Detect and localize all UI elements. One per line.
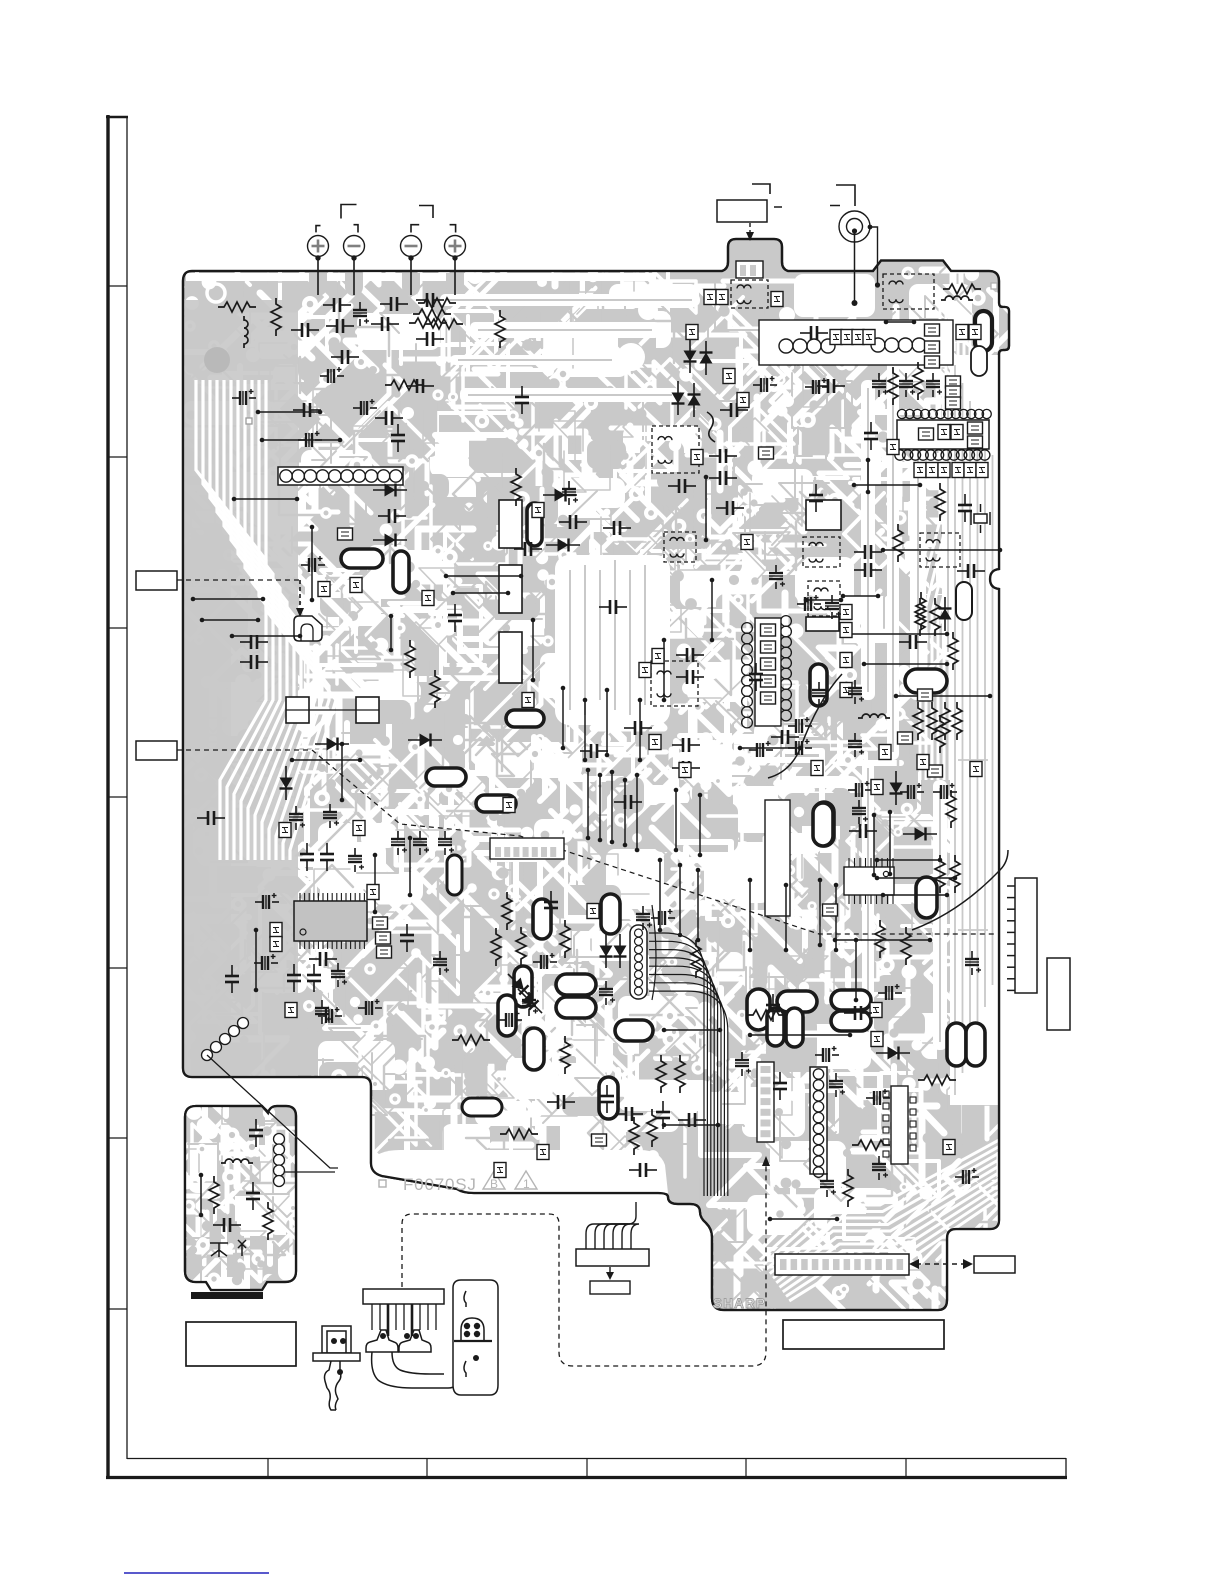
dashed harness routing region xyxy=(402,1166,766,1366)
multi-pin plug drawing xyxy=(363,1289,458,1388)
jumper xyxy=(649,735,661,750)
jumper xyxy=(686,325,698,340)
jumper xyxy=(761,641,776,653)
dashed arrow to connector xyxy=(762,1156,770,1166)
jumper xyxy=(871,780,883,795)
right margin white band xyxy=(950,355,998,1105)
electrolytic capacitor xyxy=(900,783,924,799)
wire link xyxy=(768,1217,840,1222)
resistor xyxy=(560,920,570,958)
wire link xyxy=(678,863,683,938)
electrolytic footprint xyxy=(615,1020,653,1041)
electrolytic capacitor xyxy=(815,1046,839,1062)
capacitor xyxy=(547,1095,575,1109)
wire link xyxy=(561,686,566,751)
diode xyxy=(903,828,937,841)
shield can (dashed) xyxy=(731,280,768,308)
inductor xyxy=(244,316,248,348)
revision triangle 1 xyxy=(515,1171,537,1189)
resistor xyxy=(916,592,926,630)
wire link xyxy=(704,475,709,543)
jumper xyxy=(532,503,544,518)
sub-board black bar xyxy=(191,1292,263,1299)
card-edge comb connector xyxy=(1007,878,1037,993)
jumper xyxy=(840,623,852,638)
wire link xyxy=(841,594,881,599)
jumper xyxy=(338,528,353,540)
QFP IC xyxy=(300,893,364,949)
capacitor xyxy=(800,326,828,340)
electrolytic capacitor xyxy=(599,981,615,1005)
jumper xyxy=(952,463,964,478)
electrolytic footprint xyxy=(533,899,551,939)
electrolytic capacitor xyxy=(438,831,454,855)
resistor xyxy=(913,362,923,400)
wire link xyxy=(389,614,394,653)
diode xyxy=(315,738,349,751)
capacitor xyxy=(599,600,627,614)
svg-text:F0070SJ: F0070SJ xyxy=(403,1175,477,1194)
capacitor xyxy=(899,635,927,649)
dashed double arrow xyxy=(916,1263,966,1265)
capacitor xyxy=(378,509,406,523)
electrolytic capacitor xyxy=(965,951,981,975)
jumper xyxy=(761,692,776,704)
diode xyxy=(890,771,903,805)
jumper xyxy=(871,1032,883,1047)
jumper xyxy=(723,369,735,384)
wire link xyxy=(230,634,303,639)
wire link xyxy=(872,813,877,878)
resistor xyxy=(943,284,981,294)
jumper xyxy=(761,624,776,636)
trace bundle upper-left xyxy=(196,380,266,860)
jumper xyxy=(943,1140,955,1155)
electrolytic capacitor xyxy=(636,906,652,930)
harness connector body xyxy=(576,1249,649,1266)
left edge copper pour xyxy=(183,300,298,1080)
electrolytic footprint xyxy=(810,664,827,706)
SOIC IC right xyxy=(849,858,893,904)
wire link xyxy=(605,688,610,758)
jumper xyxy=(925,324,940,336)
electrolytic capacitor xyxy=(331,963,347,987)
jumper xyxy=(976,463,988,478)
capacitor xyxy=(391,424,405,452)
jumper xyxy=(503,798,515,813)
white channel group top-center xyxy=(440,294,700,306)
main PCB board outline xyxy=(183,239,1009,1310)
jumper xyxy=(968,422,983,434)
pin header strip (white) with round pads xyxy=(278,467,403,485)
electrolytic capacitor xyxy=(358,999,382,1015)
svg-text:B: B xyxy=(490,1177,498,1191)
capacitor xyxy=(225,965,239,993)
capacitor xyxy=(291,323,319,337)
IC shield box top-right (white) with pads xyxy=(759,320,953,365)
resistor xyxy=(893,524,903,562)
jumper xyxy=(652,649,664,664)
resistor xyxy=(430,670,440,708)
white box mid-left with pads xyxy=(490,838,564,859)
wire link xyxy=(290,758,363,763)
jumper xyxy=(946,386,961,398)
resistor xyxy=(209,1176,219,1214)
capacitor xyxy=(676,670,704,684)
wire link xyxy=(881,893,950,898)
resistor xyxy=(948,632,958,670)
electrolytic capacitor xyxy=(788,717,812,733)
resistor xyxy=(502,892,512,930)
electrolytic capacitor xyxy=(926,373,942,397)
electrolytic capacitor xyxy=(753,376,777,392)
top reference box xyxy=(717,200,767,222)
electrolytic capacitor xyxy=(323,804,339,828)
resistor xyxy=(516,927,526,965)
capacitor xyxy=(249,1119,263,1147)
jumper xyxy=(840,653,852,668)
capacitor xyxy=(406,379,434,393)
resistor xyxy=(263,1202,273,1240)
white patch center xyxy=(555,555,670,725)
electrolytic footprint xyxy=(556,974,596,995)
registration square mid xyxy=(246,418,252,424)
electrolytic capacitor xyxy=(769,565,785,589)
electrolytic capacitor xyxy=(852,800,868,824)
electrolytic footprint xyxy=(767,1008,784,1046)
resistor xyxy=(935,855,945,893)
bracket mark xyxy=(752,184,770,194)
jumper xyxy=(367,885,379,900)
capacitor xyxy=(323,298,351,312)
jumper xyxy=(925,341,940,353)
electrolytic capacitor xyxy=(866,1089,890,1105)
wire link xyxy=(875,876,958,881)
diode xyxy=(684,339,697,373)
capacitor xyxy=(603,521,631,535)
electrolytic footprint xyxy=(747,989,770,1030)
jumper xyxy=(494,1163,506,1178)
electrolytic footprint xyxy=(426,768,466,786)
wire harness to connector xyxy=(586,1202,639,1250)
resistor xyxy=(875,920,885,958)
jumper xyxy=(639,663,651,678)
jumper xyxy=(968,436,983,448)
wire link xyxy=(833,938,933,943)
white silkscreen label area xyxy=(371,1150,668,1193)
wire link xyxy=(623,778,628,848)
capacitor xyxy=(849,824,877,838)
bracket mark xyxy=(411,225,419,233)
RCA jack symbol xyxy=(839,211,870,242)
electrolytic capacitor xyxy=(735,1052,751,1076)
wire link xyxy=(340,742,345,803)
jumper xyxy=(537,1145,549,1160)
bracket mark xyxy=(341,205,357,219)
resistor xyxy=(218,302,256,312)
pad chain main board xyxy=(202,1018,249,1061)
electrolytic capacitor xyxy=(289,806,305,830)
electrolytic capacitor xyxy=(899,373,915,397)
DIP IC top-right with pad rows xyxy=(895,409,992,460)
electrolytic capacitor xyxy=(848,781,872,797)
flying wire arc 2 xyxy=(912,850,1008,930)
vertical IC bottom with side pads xyxy=(891,1086,908,1164)
inductor xyxy=(858,714,890,718)
dashed leader from box 2 xyxy=(177,750,994,934)
jumper xyxy=(898,732,913,744)
electrolytic capacitor xyxy=(872,1156,888,1180)
resistor xyxy=(385,380,423,390)
electrolytic capacitor xyxy=(533,953,557,969)
crystal xyxy=(971,504,990,533)
wire link xyxy=(852,483,923,488)
jumper xyxy=(964,463,976,478)
electrolytic capacitor xyxy=(255,893,279,909)
wire link xyxy=(748,1033,853,1038)
electrolytic capacitor xyxy=(391,831,407,855)
capacitor xyxy=(331,350,359,364)
component outline xyxy=(499,632,522,683)
capacitor xyxy=(213,1218,241,1232)
electrolytic footprint xyxy=(476,795,516,812)
arrow below harness connector xyxy=(609,1267,611,1274)
capacitor xyxy=(864,422,878,450)
electrolytic capacitor xyxy=(254,954,278,970)
bracket mark xyxy=(316,226,321,233)
electrolytic capacitor xyxy=(825,595,841,619)
electrolytic capacitor xyxy=(812,682,828,706)
resistor xyxy=(946,790,956,828)
left reference box 1 xyxy=(136,571,177,590)
fan-out harness lines xyxy=(649,933,728,1196)
board connector terminal - xyxy=(401,236,422,296)
capacitor xyxy=(771,730,799,744)
electrolytic footprint xyxy=(966,1023,985,1066)
electrolytic capacitor xyxy=(878,984,902,1000)
board connector terminal + xyxy=(308,236,329,296)
capacitor xyxy=(448,604,462,632)
wire link xyxy=(662,638,667,703)
jumper xyxy=(741,535,753,550)
wire link xyxy=(698,793,703,858)
jumper xyxy=(270,923,282,938)
electrolytic footprint xyxy=(498,995,516,1036)
wire link xyxy=(866,458,871,495)
diode xyxy=(503,969,536,1002)
electrolytic footprint xyxy=(975,311,992,351)
wire link xyxy=(200,618,261,623)
RCA jack second lead xyxy=(870,227,878,285)
connector block xyxy=(1047,958,1070,1030)
capacitor xyxy=(817,379,845,393)
resistor xyxy=(935,715,945,753)
jumper xyxy=(970,762,982,777)
resistor xyxy=(935,483,945,521)
electrolytic footprint xyxy=(971,346,987,376)
component outline xyxy=(806,500,841,530)
jumper xyxy=(919,428,934,440)
resistor xyxy=(452,1035,490,1045)
electrolytic footprint xyxy=(506,710,544,727)
revision triangle B xyxy=(483,1171,505,1189)
blue footer underline xyxy=(124,1572,269,1574)
jumper xyxy=(811,761,823,776)
wire link xyxy=(888,810,893,877)
jumper xyxy=(759,447,774,459)
electrolytic capacitor xyxy=(498,1011,522,1027)
wire link xyxy=(232,497,300,502)
wire link xyxy=(583,698,588,763)
wire link xyxy=(884,320,917,325)
electrolytic capacitor xyxy=(320,367,344,383)
jumper xyxy=(587,904,599,919)
wire link xyxy=(804,598,844,603)
sub-board outline (power section) xyxy=(185,1106,296,1290)
wire link xyxy=(862,662,950,667)
wire link xyxy=(848,632,950,637)
electrolytic capacitor xyxy=(955,1168,979,1184)
inductor xyxy=(221,1159,253,1163)
jumper xyxy=(285,1003,297,1018)
wire link xyxy=(875,858,943,863)
capacitor xyxy=(380,297,408,311)
capacitor xyxy=(514,542,542,556)
jumper xyxy=(377,946,392,958)
resistor xyxy=(500,1129,538,1139)
capacitor xyxy=(672,738,700,752)
diode xyxy=(373,534,407,547)
jumper xyxy=(879,745,891,760)
capacitor xyxy=(678,1113,706,1127)
shield can (dashed) xyxy=(651,661,698,706)
jumper xyxy=(951,425,963,440)
capacitor xyxy=(515,386,529,414)
capacitor xyxy=(720,403,748,417)
registration square top right xyxy=(991,283,997,289)
inductor xyxy=(941,296,973,300)
board connector terminal + xyxy=(445,236,466,296)
electrolytic footprint xyxy=(831,1011,871,1031)
electrolytic capacitor xyxy=(298,431,322,447)
electrolytic capacitor xyxy=(522,992,538,1016)
resistor xyxy=(491,928,501,966)
jumper xyxy=(422,591,434,606)
wire link xyxy=(696,868,701,943)
electrolytic footprint xyxy=(393,551,409,593)
jumper xyxy=(350,578,362,593)
capacitor xyxy=(320,843,334,871)
jumper xyxy=(279,823,291,838)
jumper xyxy=(887,440,899,455)
shield can (dashed) xyxy=(803,537,840,567)
resistor xyxy=(950,855,960,893)
resistor xyxy=(843,1169,853,1207)
diode xyxy=(546,539,580,552)
resistor xyxy=(930,598,940,636)
diode xyxy=(373,484,407,497)
resistor xyxy=(495,310,505,348)
resistor xyxy=(918,1075,956,1085)
jumper xyxy=(938,425,950,440)
wire link xyxy=(444,574,524,579)
capacitor xyxy=(400,924,414,952)
capacitor xyxy=(656,1101,670,1129)
electrolytic capacitor xyxy=(872,373,888,397)
wire link xyxy=(199,1173,204,1218)
svg-text:1: 1 xyxy=(523,1177,530,1191)
small registration square xyxy=(379,1180,386,1187)
capacitor xyxy=(240,635,268,649)
capacitor xyxy=(371,317,399,331)
capacitor xyxy=(809,484,823,512)
capacitor xyxy=(375,411,403,425)
jumper xyxy=(852,330,864,345)
wire link xyxy=(674,788,679,853)
resistor xyxy=(888,367,898,405)
electrolytic capacitor xyxy=(933,783,957,799)
capacitor xyxy=(559,515,587,529)
jumper xyxy=(840,605,852,620)
capacitor xyxy=(614,795,642,809)
electrolytic capacitor xyxy=(651,909,675,925)
capacitor xyxy=(766,994,780,1022)
electrolytic capacitor xyxy=(848,733,864,757)
sub-board pad chain xyxy=(274,1134,285,1187)
resistor xyxy=(409,318,447,328)
capacitor xyxy=(416,293,444,307)
resistor xyxy=(418,298,456,308)
resistor xyxy=(656,1055,666,1093)
resistor xyxy=(629,1117,639,1155)
wire link xyxy=(662,1123,721,1128)
tall white connector right-center xyxy=(765,800,790,916)
capacitor xyxy=(307,964,321,992)
SIP connector circle column xyxy=(810,1067,827,1174)
jumper xyxy=(761,675,776,687)
capacitor xyxy=(615,1107,643,1121)
jumper xyxy=(946,397,961,409)
capacitor xyxy=(309,952,337,966)
electrolytic capacitor xyxy=(797,595,821,611)
jumper xyxy=(761,658,776,670)
electrolytic capacitor xyxy=(805,378,829,394)
jumper xyxy=(969,325,981,340)
electrolytic capacitor xyxy=(829,1073,845,1097)
wire link xyxy=(256,410,323,415)
electrolytic capacitor xyxy=(353,399,377,415)
capacitor xyxy=(326,319,354,333)
capacitor xyxy=(580,744,608,758)
dashed leader from box 1 xyxy=(177,579,300,581)
flying wire arc xyxy=(768,674,842,778)
capacitor xyxy=(544,891,558,919)
wire squiggle xyxy=(707,412,715,442)
jumper xyxy=(863,330,875,345)
component outline xyxy=(356,697,379,723)
resistor xyxy=(271,298,281,336)
component outline xyxy=(499,565,522,613)
tab connector white rect xyxy=(736,261,763,278)
resistor xyxy=(413,309,451,319)
capacitor xyxy=(749,663,763,691)
wire link xyxy=(408,836,413,898)
capacitor xyxy=(668,479,696,493)
diode xyxy=(672,381,685,415)
capacitor xyxy=(773,1072,787,1100)
electrolytic capacitor xyxy=(788,739,812,755)
capacitor xyxy=(709,449,737,463)
